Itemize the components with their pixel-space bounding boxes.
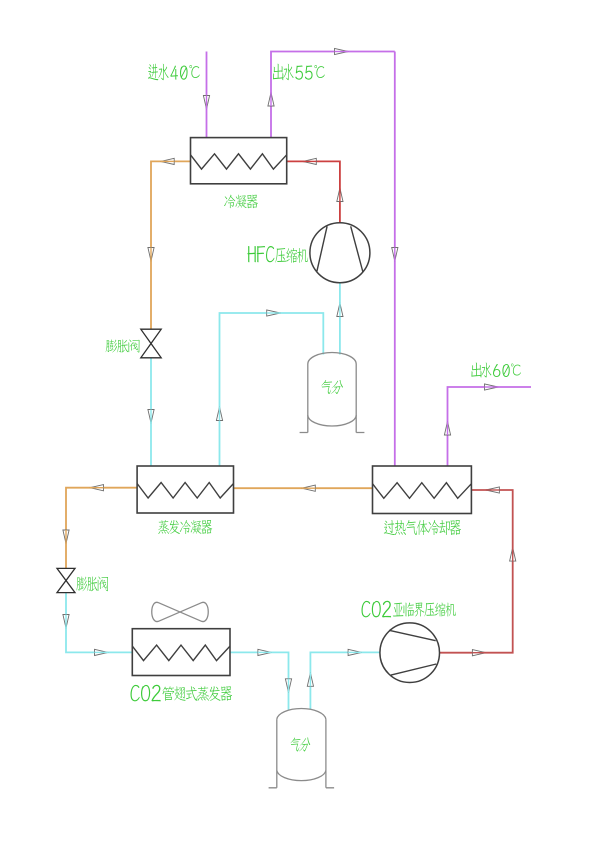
label: separator 2 — [288, 737, 312, 751]
superheat gas cooler HX3 shell — [373, 466, 472, 514]
flow arrow gas cooler water out up — [444, 422, 450, 436]
pipe: evap-condenser vapor to separator 1 (cyan) — [220, 313, 324, 467]
HFC compressor vanes — [317, 226, 363, 272]
pipe: condenser liquid out to expansion valve 1 (orange) — [151, 161, 191, 329]
label: evaporative condenser — [158, 520, 169, 534]
flow arrow valve 2 out down — [63, 615, 69, 629]
pipe: water drop to gas cooler — [394, 52, 396, 467]
flow arrow outlet water 60C right — [485, 384, 499, 390]
flow arrow condenser liquid left — [161, 158, 175, 164]
pipe: gas cooler outlet water 60C — [448, 387, 532, 467]
condenser HX1 coil zigzag — [191, 154, 287, 169]
label: outlet water 55C — [273, 64, 283, 81]
expansion valve 1 — [141, 329, 161, 358]
pipe: CO2 evaporator to separator 2 (cyan) — [230, 652, 289, 709]
label: inlet water 40C — [148, 64, 158, 81]
gas-liquid separator 2 shell — [277, 709, 326, 720]
expansion valve 2 — [57, 568, 75, 592]
label: superheat gas cooler — [384, 520, 395, 535]
flow arrow evaporator out right — [258, 649, 272, 655]
pipe: separator 1 to HFC compressor suction (cyan) — [339, 283, 341, 355]
flow arrow CO2 discharge right — [472, 650, 486, 656]
flow arrow evap-condenser vapor up — [216, 407, 222, 421]
label: expansion valve 2 — [76, 576, 87, 591]
pipe: condenser outlet water riser — [271, 52, 395, 139]
CO2 fin-tube evaporator HX4 shell — [132, 629, 230, 676]
flow arrow liquid to valve 1 down — [148, 248, 154, 262]
flow arrow separator 2 out up — [307, 673, 313, 687]
pipe: gas cooler to evap-condenser (orange) — [234, 487, 373, 489]
CO2 compressor circle — [380, 623, 440, 683]
flow arrow to separator 2 down — [285, 679, 291, 693]
flow arrow vapor to separator 1 right — [267, 310, 281, 316]
flow arrow HFC discharge up — [337, 188, 343, 202]
flow arrow CO2 discharge to gas cooler left — [486, 487, 500, 493]
evaporative condenser HX2 shell — [137, 466, 233, 513]
flow arrow water top right — [335, 48, 349, 54]
pipe: inlet water 40C down into condenser — [206, 52, 208, 139]
flow arrow HFC discharge left — [303, 158, 317, 164]
flow arrow gas cooler to evap-condenser left — [302, 485, 316, 491]
label: CO2 subcritical compressor — [362, 601, 371, 618]
evaporator fan — [152, 602, 209, 621]
label: expansion valve 1 — [106, 340, 117, 353]
pipe: expansion valve 2 outlet to CO2 evaporator (cyan) — [66, 593, 132, 653]
HFC compressor circle — [310, 223, 370, 283]
pipe: evap-condenser liquid out to expansion valve 2 (orange) — [66, 488, 137, 569]
label: HFC compressor — [247, 246, 255, 262]
flow arrow to CO2 compressor right — [348, 649, 362, 655]
superheat gas cooler HX3 coil zigzag — [373, 483, 472, 499]
label: outlet water 60C — [471, 363, 481, 378]
flow arrow valve 1 out down — [148, 410, 154, 424]
gas-liquid separator 1 legs — [300, 364, 365, 433]
flow arrow separator 1 to HFC compressor up — [337, 303, 343, 317]
gas-liquid separator 2 legs — [269, 719, 335, 788]
flow arrow water to gas cooler down — [392, 248, 398, 262]
pipe: HFC compressor discharge to condenser (red) — [287, 161, 340, 222]
flow arrow liquid to valve 2 down — [63, 530, 69, 544]
pipe: separator 2 to CO2 compressor suction (cyan) — [310, 652, 380, 709]
evaporative condenser HX2 coil zigzag — [137, 483, 233, 499]
flow arrow condenser water out up — [268, 93, 274, 107]
flow arrow inlet water down — [203, 96, 209, 110]
CO2 compressor vanes — [389, 630, 436, 675]
label: condenser — [224, 195, 235, 209]
flow arrow evap-condenser liquid left — [90, 485, 104, 491]
flow arrow to CO2 evaporator right — [95, 649, 109, 655]
condenser HX1 shell — [191, 138, 287, 184]
pipe: CO2 compressor discharge to gas cooler (red) — [439, 490, 512, 653]
label: separator 1 — [319, 380, 345, 394]
label: CO2 fin-tube evaporator — [131, 685, 140, 702]
flow arrow CO2 discharge up — [510, 548, 516, 562]
CO2 fin-tube evaporator HX4 coil zigzag — [132, 645, 230, 661]
pipe: expansion valve 1 outlet to evap-condenser (cyan) — [150, 358, 152, 467]
gas-liquid separator 1 shell — [308, 353, 356, 365]
